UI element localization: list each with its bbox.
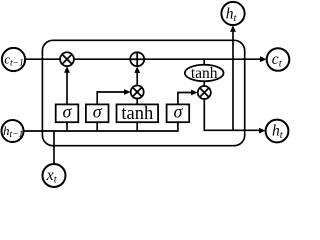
node c_t-1 (previous cell state input): [2, 48, 25, 71]
arrowhead into multiplier x2 from sigma2: [124, 89, 131, 95]
svg-text:tanh: tanh: [121, 104, 153, 124]
node h_t right (hidden state output): [266, 120, 289, 143]
gate box sigma1 (forget gate): [56, 102, 79, 123]
gate box sigma3 (output gate): [167, 102, 190, 123]
gate box sigma2 (input gate): [86, 102, 109, 123]
wire: sigma3 output elbow into multiplier x3: [178, 93, 192, 106]
svg-text:tanh: tanh: [191, 65, 218, 82]
arrowhead into multiplier x3 from sigma3: [191, 90, 198, 96]
wire: stub sigma2 box down to h line: [96, 122, 98, 132]
wire: x_t riser up to h line: [53, 131, 55, 166]
node h_t top (hidden state output): [221, 2, 244, 25]
svg-text:σ: σ: [173, 102, 183, 122]
tanh oval (cell output squashing): [185, 65, 224, 82]
wire: tanh oval down into multiplier x3: [203, 81, 205, 88]
wire: h output from multiplier x3 down and right to h_t: [204, 98, 259, 130]
wire: sigma1 output up into multiplier x1: [66, 72, 68, 106]
wire: stub tanh box down to h line: [136, 122, 138, 132]
wire: multiplier x2 up into adder: [136, 72, 138, 87]
wire: stub sigma3 box down to h line: [177, 122, 179, 132]
wire: riser from h output line up to top h_t: [232, 27, 234, 131]
multiplier x1 (forget gate product): [60, 52, 74, 66]
LSTM cell body (rounded rectangle): [42, 40, 244, 145]
multiplier x3 (output gate product): [198, 86, 211, 99]
wire: cell-state line c (from c_t-1 through x1 and + to c_t): [22, 58, 260, 60]
arrowhead into c_t: [260, 56, 267, 62]
gate box tanh (candidate gate): [117, 104, 159, 124]
adder (cell state update): [130, 52, 144, 66]
svg-text:σ: σ: [63, 102, 73, 122]
node c_t (cell state output): [267, 48, 290, 71]
wire: c line stub down into tanh oval: [203, 59, 205, 67]
node h_t-1 (previous hidden state input): [2, 120, 24, 142]
node x_t (input): [43, 164, 66, 187]
arrowhead into multiplier x1 from sigma1: [64, 66, 70, 73]
svg-text:σ: σ: [93, 102, 103, 122]
wire: hidden-state input line h (from h_t-1 to gate stubs): [22, 130, 179, 132]
arrowhead into top h_t: [230, 25, 236, 32]
multiplier x2 (input gate product): [131, 86, 144, 99]
wire: sigma2 output elbow into multiplier x2: [97, 92, 125, 106]
wire: stub sigma1 box down to h line: [66, 122, 68, 132]
wire: tanh box output up into multiplier x2: [136, 97, 138, 106]
arrowhead into adder from multiplier x2: [134, 66, 140, 73]
arrowhead into right h_t: [259, 128, 266, 134]
